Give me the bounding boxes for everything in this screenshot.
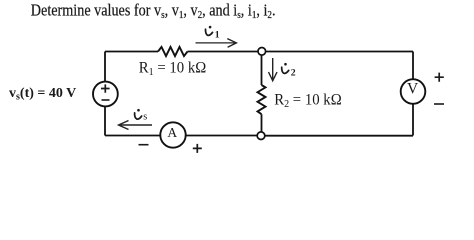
label minus of ammeter [139,144,149,146]
label plus of voltmeter [435,73,444,82]
label R1 value [139,59,206,78]
wire left side lower [104,106,106,135]
current arrow i1 [196,39,237,48]
current arrow i2 [269,58,278,81]
label R2 value [274,91,341,110]
wire right side down [412,52,414,80]
label i1 [205,26,219,41]
svg-text:V: V [407,81,419,98]
label vs source value [9,86,76,103]
svg-text:s: s [143,112,147,123]
voltage source VS [93,82,118,107]
wire bottom middle segment [186,135,257,137]
svg-text:1: 1 [215,30,220,41]
wire bottom right segment [265,135,413,137]
wire left side upper [104,52,106,82]
wire middle branch lower [261,114,263,132]
wire top right segment [188,51,414,53]
wire bottom left segment [105,135,160,137]
wire top left segment [105,51,158,53]
label i2 [282,63,296,79]
resistor R2 [258,85,266,114]
wire middle branch upper [261,55,263,85]
label plus of ammeter [193,144,202,153]
label minus of voltmeter [434,103,444,105]
label is [135,109,148,123]
voltmeter V [401,79,426,104]
current arrow is [119,121,153,130]
svg-text:vs(t) = 40 V: vs(t) = 40 V [9,86,76,103]
svg-text:A: A [167,125,177,140]
node bottom [257,132,265,140]
ammeter A [160,122,185,147]
title text [31,1,276,21]
resistor R1 [158,47,188,56]
svg-text:2: 2 [291,68,296,79]
node top [258,48,266,56]
wire right side lower [412,104,414,136]
